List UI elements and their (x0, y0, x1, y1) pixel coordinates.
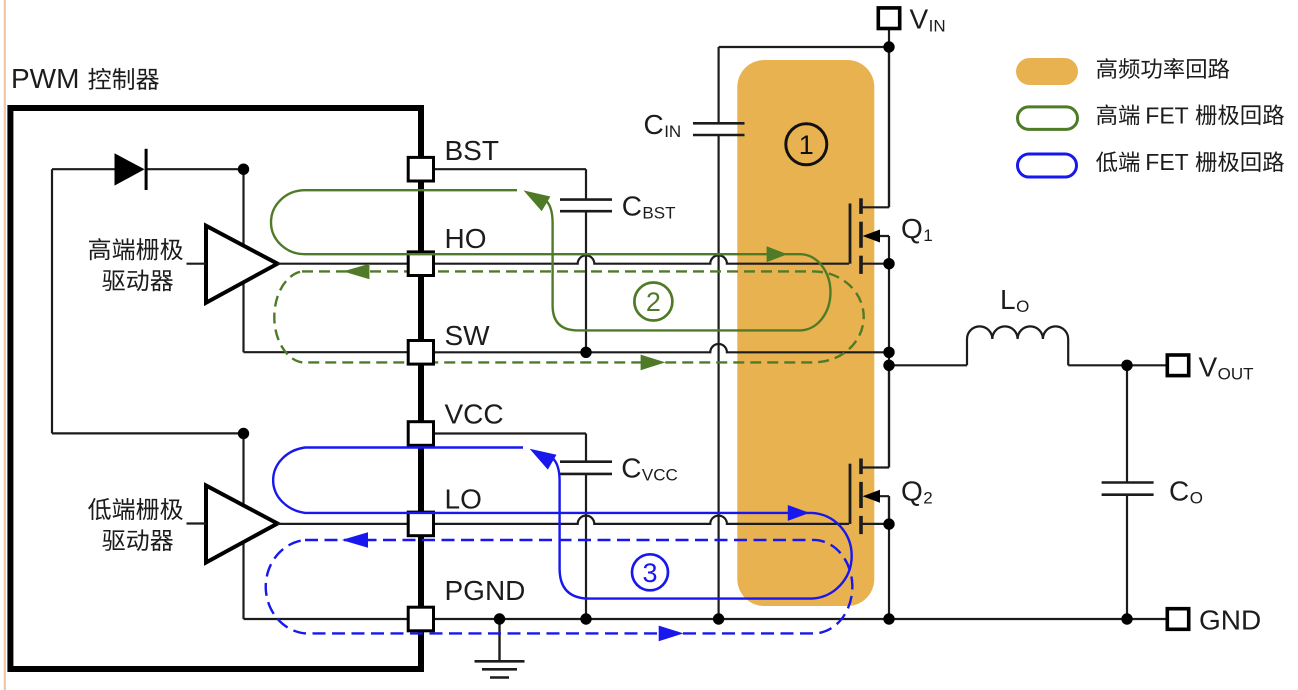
svg-text:2: 2 (646, 287, 661, 317)
svg-text:IN: IN (929, 17, 946, 36)
svg-text:V: V (1199, 352, 1218, 383)
svg-text:SW: SW (445, 320, 491, 351)
svg-text:3: 3 (642, 558, 657, 588)
svg-text:Q: Q (901, 476, 923, 507)
svg-text:L: L (1000, 284, 1016, 315)
svg-text:VCC: VCC (445, 399, 504, 430)
svg-text:VCC: VCC (642, 466, 678, 485)
svg-text:FET: FET (1145, 149, 1188, 175)
svg-text:C: C (621, 453, 641, 484)
svg-text:OUT: OUT (1218, 365, 1254, 384)
svg-text:FET: FET (1145, 102, 1188, 128)
svg-text:V: V (910, 4, 929, 35)
svg-text:1: 1 (923, 226, 932, 245)
svg-text:1: 1 (799, 130, 814, 160)
svg-text:C: C (1169, 476, 1189, 507)
svg-text:C: C (644, 109, 664, 140)
svg-text:O: O (1016, 297, 1029, 316)
svg-text:GND: GND (1199, 605, 1261, 636)
svg-text:C: C (622, 191, 642, 222)
svg-text:2: 2 (923, 489, 932, 508)
svg-text:PWM: PWM (11, 63, 79, 94)
svg-text:PGND: PGND (445, 575, 526, 606)
svg-text:HO: HO (445, 223, 487, 254)
svg-text:Q: Q (901, 213, 923, 244)
svg-text:IN: IN (664, 122, 681, 141)
svg-text:BST: BST (642, 204, 675, 223)
svg-text:LO: LO (445, 484, 482, 515)
svg-text:BST: BST (445, 135, 499, 166)
svg-text:O: O (1190, 489, 1203, 508)
